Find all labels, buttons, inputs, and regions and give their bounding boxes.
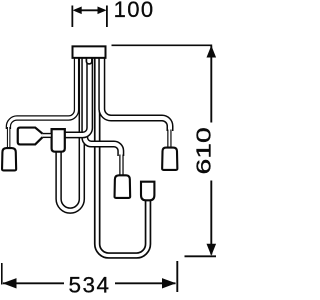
svg-text:100: 100 bbox=[114, 0, 155, 22]
svg-text:610: 610 bbox=[193, 127, 215, 174]
svg-text:534: 534 bbox=[69, 272, 111, 297]
